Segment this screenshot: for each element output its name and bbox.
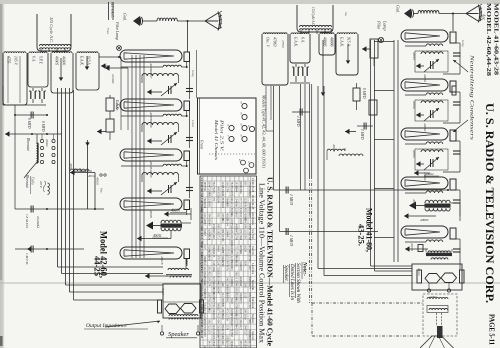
svg-text:Osc. V: Osc. V	[266, 37, 270, 48]
svg-text:Osc.: Osc.	[100, 188, 104, 194]
svg-text:47063: 47063	[281, 40, 285, 48]
svg-text:748: 748	[234, 282, 237, 287]
svg-text:223: 223	[243, 229, 246, 234]
svg-text:23662: 23662	[239, 187, 242, 195]
svg-text:472: 472	[225, 309, 228, 314]
svg-text:409: 409	[221, 335, 224, 340]
svg-text:40019: 40019	[410, 243, 414, 251]
svg-text:PAGE 5-11: PAGE 5-11	[488, 314, 497, 345]
svg-text:18397: 18397	[203, 330, 206, 338]
svg-text:256: 256	[230, 234, 233, 239]
svg-text:40062: 40062	[412, 101, 416, 109]
svg-text:659: 659	[243, 181, 246, 186]
svg-text:40062: 40062	[425, 172, 434, 176]
svg-text:MODEL 41-60,43-28: MODEL 41-60,43-28	[493, 3, 500, 75]
svg-text:40006: 40006	[330, 37, 334, 47]
svg-text:47063: 47063	[273, 37, 277, 47]
svg-text:115 Cycle A.C.: 115 Cycle A.C.	[311, 7, 316, 26]
svg-text:436: 436	[230, 229, 233, 234]
svg-text:1 M.F.D.: 1 M.F.D.	[25, 253, 29, 265]
svg-text:List Price: List Price	[251, 263, 255, 275]
svg-text:40008: 40008	[149, 119, 153, 128]
svg-text:2709: 2709	[225, 187, 228, 193]
svg-text:8971: 8971	[239, 298, 242, 304]
svg-text:Universal: Universal	[251, 297, 255, 308]
svg-text:105 V.: 105 V.	[14, 56, 18, 65]
svg-text:2190: 2190	[203, 203, 206, 209]
svg-text:40007: 40007	[149, 70, 153, 79]
svg-text:6598: 6598	[239, 219, 242, 225]
svg-text:40005: 40005	[96, 177, 100, 185]
svg-text:40011: 40011	[153, 234, 162, 238]
svg-text:40017: 40017	[161, 287, 165, 295]
svg-text:880: 880	[230, 250, 233, 255]
svg-text:Note:-: Note:-	[302, 261, 308, 276]
svg-text:231: 231	[230, 203, 233, 208]
svg-text:843: 843	[221, 219, 224, 224]
svg-text:8 MFD: 8 MFD	[362, 88, 366, 99]
svg-text:170: 170	[225, 266, 228, 271]
svg-text:586: 586	[234, 272, 237, 277]
svg-text:Part No.: Part No.	[251, 246, 255, 256]
svg-text:Pilot 2.5 V.: Pilot 2.5 V.	[220, 118, 224, 151]
svg-text:172: 172	[216, 234, 219, 239]
svg-text:815 A.: 815 A.	[347, 37, 351, 47]
svg-text:528: 528	[225, 340, 228, 345]
svg-text:599: 599	[248, 293, 251, 298]
svg-text:106: 106	[239, 319, 242, 324]
svg-text:7696: 7696	[239, 234, 242, 240]
svg-text:138: 138	[212, 261, 215, 266]
svg-text:40007: 40007	[149, 112, 153, 120]
svg-text:U. S. RADIO & TELEVISION—Model: U. S. RADIO & TELEVISION—Model 41-60 Cyc…	[266, 177, 275, 347]
svg-text:26997: 26997	[203, 219, 206, 227]
svg-text:1604: 1604	[212, 266, 215, 272]
svg-text:Remarks: Remarks	[251, 280, 255, 291]
svg-text:Lamp: Lamp	[383, 20, 388, 31]
svg-text:502: 502	[234, 298, 237, 303]
svg-text:68749: 68749	[203, 293, 206, 301]
svg-text:602: 602	[207, 309, 210, 314]
svg-text:6117: 6117	[234, 213, 237, 219]
svg-text:135: 135	[203, 213, 206, 218]
svg-text:773: 773	[239, 203, 242, 208]
svg-text:4755: 4755	[7, 56, 11, 64]
svg-text:489: 489	[216, 187, 219, 192]
svg-text:1243: 1243	[207, 256, 210, 262]
svg-text:209: 209	[243, 309, 246, 314]
svg-text:1 MFD: 1 MFD	[360, 129, 364, 140]
svg-text:876: 876	[230, 192, 233, 197]
svg-text:40063: 40063	[412, 150, 416, 158]
svg-text:Ant.: Ant.	[482, 13, 487, 21]
svg-text:8528: 8528	[230, 298, 233, 304]
svg-text:983: 983	[225, 234, 228, 239]
svg-text:68567: 68567	[212, 340, 215, 348]
svg-text:9204: 9204	[216, 197, 219, 203]
svg-text:9591: 9591	[243, 261, 246, 267]
svg-text:892: 892	[243, 208, 246, 213]
svg-text:435: 435	[216, 314, 219, 319]
svg-text:9123: 9123	[248, 192, 251, 198]
svg-text:704: 704	[207, 213, 210, 218]
svg-text:197: 197	[203, 245, 206, 250]
svg-text:42-60 44-28: 42-60 44-28	[251, 195, 255, 210]
svg-text:43-25.: 43-25.	[357, 224, 367, 246]
svg-text:8 MFD: 8 MFD	[41, 121, 45, 132]
svg-text:40009: 40009	[149, 169, 153, 178]
svg-text:196: 196	[225, 277, 228, 282]
svg-text:975: 975	[239, 229, 242, 234]
svg-text:Coils: Coils	[31, 177, 35, 185]
svg-text:40005: 40005	[55, 56, 59, 65]
svg-text:69663: 69663	[216, 245, 219, 253]
svg-text:Line Voltage 110—Volume Contro: Line Voltage 110—Volume Control Position…	[258, 183, 265, 344]
svg-text:E.A.K.: E.A.K.	[294, 36, 298, 47]
svg-text:34324: 34324	[225, 219, 228, 227]
svg-text:722: 722	[207, 325, 210, 330]
svg-text:161: 161	[239, 250, 242, 255]
svg-text:Rheostat: Rheostat	[26, 137, 30, 152]
svg-text:Pilot: Pilot	[377, 20, 382, 30]
svg-text:90548: 90548	[207, 219, 210, 227]
svg-text:852: 852	[203, 261, 206, 266]
svg-text:Cond.: Cond.	[191, 120, 195, 128]
svg-text:3138: 3138	[225, 325, 228, 331]
svg-text:Replace: Replace	[251, 314, 255, 324]
svg-text:550: 550	[243, 234, 246, 239]
svg-text:147: 147	[248, 340, 251, 345]
svg-text:Gang: Gang	[191, 70, 195, 77]
svg-text:5620: 5620	[243, 314, 246, 320]
svg-text:42847: 42847	[216, 287, 219, 295]
svg-text:1 MFD: 1 MFD	[296, 116, 300, 127]
svg-text:455: 455	[207, 272, 210, 277]
svg-text:6571: 6571	[239, 325, 242, 331]
svg-text:3552: 3552	[234, 330, 237, 336]
svg-text:292: 292	[207, 266, 210, 271]
svg-text:636: 636	[243, 203, 246, 208]
svg-text:30584: 30584	[230, 340, 233, 348]
svg-text:5561: 5561	[243, 282, 246, 288]
svg-text:67921: 67921	[248, 256, 251, 264]
svg-text:9708: 9708	[248, 234, 251, 240]
svg-text:3215: 3215	[243, 293, 246, 299]
svg-text:U. S. RADIO & TELEVISION CORP.: U. S. RADIO & TELEVISION CORP.	[483, 103, 495, 303]
svg-text:356: 356	[212, 335, 215, 340]
svg-text:118: 118	[239, 282, 242, 287]
svg-text:All Models: All Models	[251, 212, 255, 226]
svg-text:587: 587	[221, 250, 224, 255]
svg-text:Front: Front	[200, 139, 205, 150]
svg-text:876: 876	[216, 256, 219, 261]
svg-text:40062: 40062	[423, 123, 427, 132]
svg-text:9190: 9190	[234, 261, 237, 267]
svg-text:Fuse: Fuse	[106, 27, 110, 35]
svg-text:702: 702	[207, 298, 210, 303]
svg-text:196: 196	[207, 319, 210, 324]
svg-text:40018: 40018	[160, 256, 164, 265]
svg-text:25756: 25756	[225, 314, 228, 322]
svg-text:709: 709	[203, 187, 206, 192]
svg-text:764: 764	[212, 181, 215, 186]
svg-text:69339: 69339	[243, 340, 246, 348]
svg-text:Pilot Lamp: Pilot Lamp	[115, 21, 120, 40]
svg-text:773: 773	[239, 314, 242, 319]
svg-text:41-60 43-28: 41-60 43-28	[251, 178, 255, 193]
svg-text:984: 984	[221, 229, 224, 234]
svg-text:1 MFD: 1 MFD	[289, 194, 293, 205]
svg-text:Y.P.Y.: Y.P.Y.	[39, 56, 43, 64]
svg-text:289: 289	[243, 224, 246, 229]
svg-text:375: 375	[234, 245, 237, 250]
svg-text:44-25: 44-25	[93, 256, 103, 276]
svg-text:6 MFD: 6 MFD	[27, 118, 31, 129]
svg-text:720: 720	[248, 303, 251, 308]
svg-text:5949: 5949	[234, 187, 237, 193]
svg-text:Output Impedance: Output Impedance	[86, 323, 127, 329]
svg-text:34125: 34125	[212, 250, 215, 258]
svg-text:95306: 95306	[221, 234, 224, 242]
svg-text:342: 342	[203, 266, 206, 271]
svg-text:115 Cycle A.C.: 115 Cycle A.C.	[49, 17, 54, 43]
svg-text:2798: 2798	[234, 234, 237, 240]
svg-text:806: 806	[248, 319, 251, 324]
svg-text:143: 143	[207, 340, 210, 345]
svg-text:600: 600	[221, 340, 224, 345]
svg-text:240: 240	[221, 282, 224, 287]
svg-text:40004: 40004	[45, 139, 49, 147]
svg-text:Gnd.: Gnd.	[396, 5, 401, 13]
svg-text:162: 162	[230, 213, 233, 218]
svg-text:1 MFD: 1 MFD	[289, 235, 293, 246]
svg-text:26236: 26236	[243, 245, 246, 253]
svg-text:860: 860	[230, 282, 233, 287]
svg-text:40006: 40006	[149, 63, 153, 71]
svg-text:Speaker: Speaker	[168, 331, 189, 338]
svg-text:See Note: See Note	[251, 229, 255, 240]
svg-text:277: 277	[216, 309, 219, 314]
svg-text:414: 414	[216, 319, 219, 324]
svg-text:5453: 5453	[221, 203, 224, 209]
svg-text:119: 119	[207, 330, 210, 335]
svg-text:7537: 7537	[243, 330, 246, 336]
svg-text:112: 112	[221, 293, 224, 298]
svg-text:460: 460	[212, 234, 215, 239]
svg-text:400 Ω: 400 Ω	[73, 168, 82, 172]
svg-text:1708: 1708	[221, 261, 224, 267]
svg-text:745: 745	[212, 303, 215, 308]
svg-text:E.A.K.: E.A.K.	[80, 55, 84, 66]
svg-text:81897: 81897	[203, 229, 206, 237]
svg-text:871: 871	[212, 197, 215, 202]
svg-text:499: 499	[225, 203, 228, 208]
svg-text:76331: 76331	[212, 187, 215, 195]
svg-text:553: 553	[225, 256, 228, 261]
svg-text:365: 365	[207, 203, 210, 208]
svg-text:389: 389	[216, 224, 219, 229]
svg-text:40064: 40064	[412, 199, 416, 207]
svg-text:Gnd.: Gnd.	[123, 13, 128, 21]
svg-text:844: 844	[234, 325, 237, 330]
svg-text:400 Ω: 400 Ω	[88, 174, 96, 178]
svg-text:40010: 40010	[171, 209, 180, 213]
svg-text:243: 243	[203, 282, 206, 287]
svg-text:Sw.: Sw.	[344, 12, 348, 17]
svg-text:238: 238	[239, 266, 242, 271]
svg-text:E.A.K.: E.A.K.	[115, 99, 119, 110]
svg-text:40063: 40063	[420, 218, 429, 222]
svg-text:574: 574	[207, 282, 210, 287]
svg-text:40006: 40006	[62, 56, 66, 65]
svg-text:Rheostat: Rheostat	[25, 174, 29, 189]
svg-text:528: 528	[216, 261, 219, 266]
svg-text:Gang: Gang	[461, 40, 465, 47]
svg-text:804: 804	[243, 219, 246, 224]
svg-text:881: 881	[221, 303, 224, 308]
svg-text:41303: 41303	[429, 295, 437, 299]
svg-text:113: 113	[239, 213, 242, 218]
svg-text:97858: 97858	[230, 330, 233, 338]
svg-text:40061: 40061	[412, 52, 416, 60]
svg-text:40061: 40061	[423, 74, 427, 83]
svg-text:399: 399	[239, 340, 242, 345]
svg-text:449: 449	[221, 192, 224, 197]
svg-text:E.A.K.: E.A.K.	[340, 36, 344, 47]
svg-text:Neutralizing Condensers: Neutralizing Condensers	[469, 53, 474, 140]
svg-text:4443: 4443	[221, 314, 224, 320]
svg-text:7820: 7820	[207, 234, 210, 240]
svg-text:306: 306	[234, 203, 237, 208]
svg-text:40008: 40008	[149, 161, 153, 169]
svg-text:480: 480	[248, 250, 251, 255]
svg-text:992: 992	[225, 298, 228, 303]
svg-text:931: 931	[216, 213, 219, 218]
svg-text:283: 283	[207, 277, 210, 282]
svg-text:316: 316	[225, 181, 228, 186]
svg-text:377: 377	[239, 197, 242, 202]
svg-text:Model 41 Chassis: Model 41 Chassis	[214, 119, 218, 161]
svg-text:843: 843	[212, 229, 215, 234]
svg-text:40005: 40005	[332, 144, 336, 152]
svg-text:313: 313	[230, 266, 233, 271]
svg-text:20 V.: 20 V.	[39, 181, 43, 188]
svg-text:Special: Special	[251, 331, 255, 340]
svg-text:1.8 M.F.D.: 1.8 M.F.D.	[25, 214, 29, 229]
svg-text:4939: 4939	[212, 314, 215, 320]
svg-text:40009: 40009	[149, 210, 153, 218]
svg-text:40020: 40020	[417, 268, 421, 276]
svg-text:6 A.: 6 A.	[301, 37, 305, 43]
svg-text:6 A.: 6 A.	[32, 56, 36, 62]
